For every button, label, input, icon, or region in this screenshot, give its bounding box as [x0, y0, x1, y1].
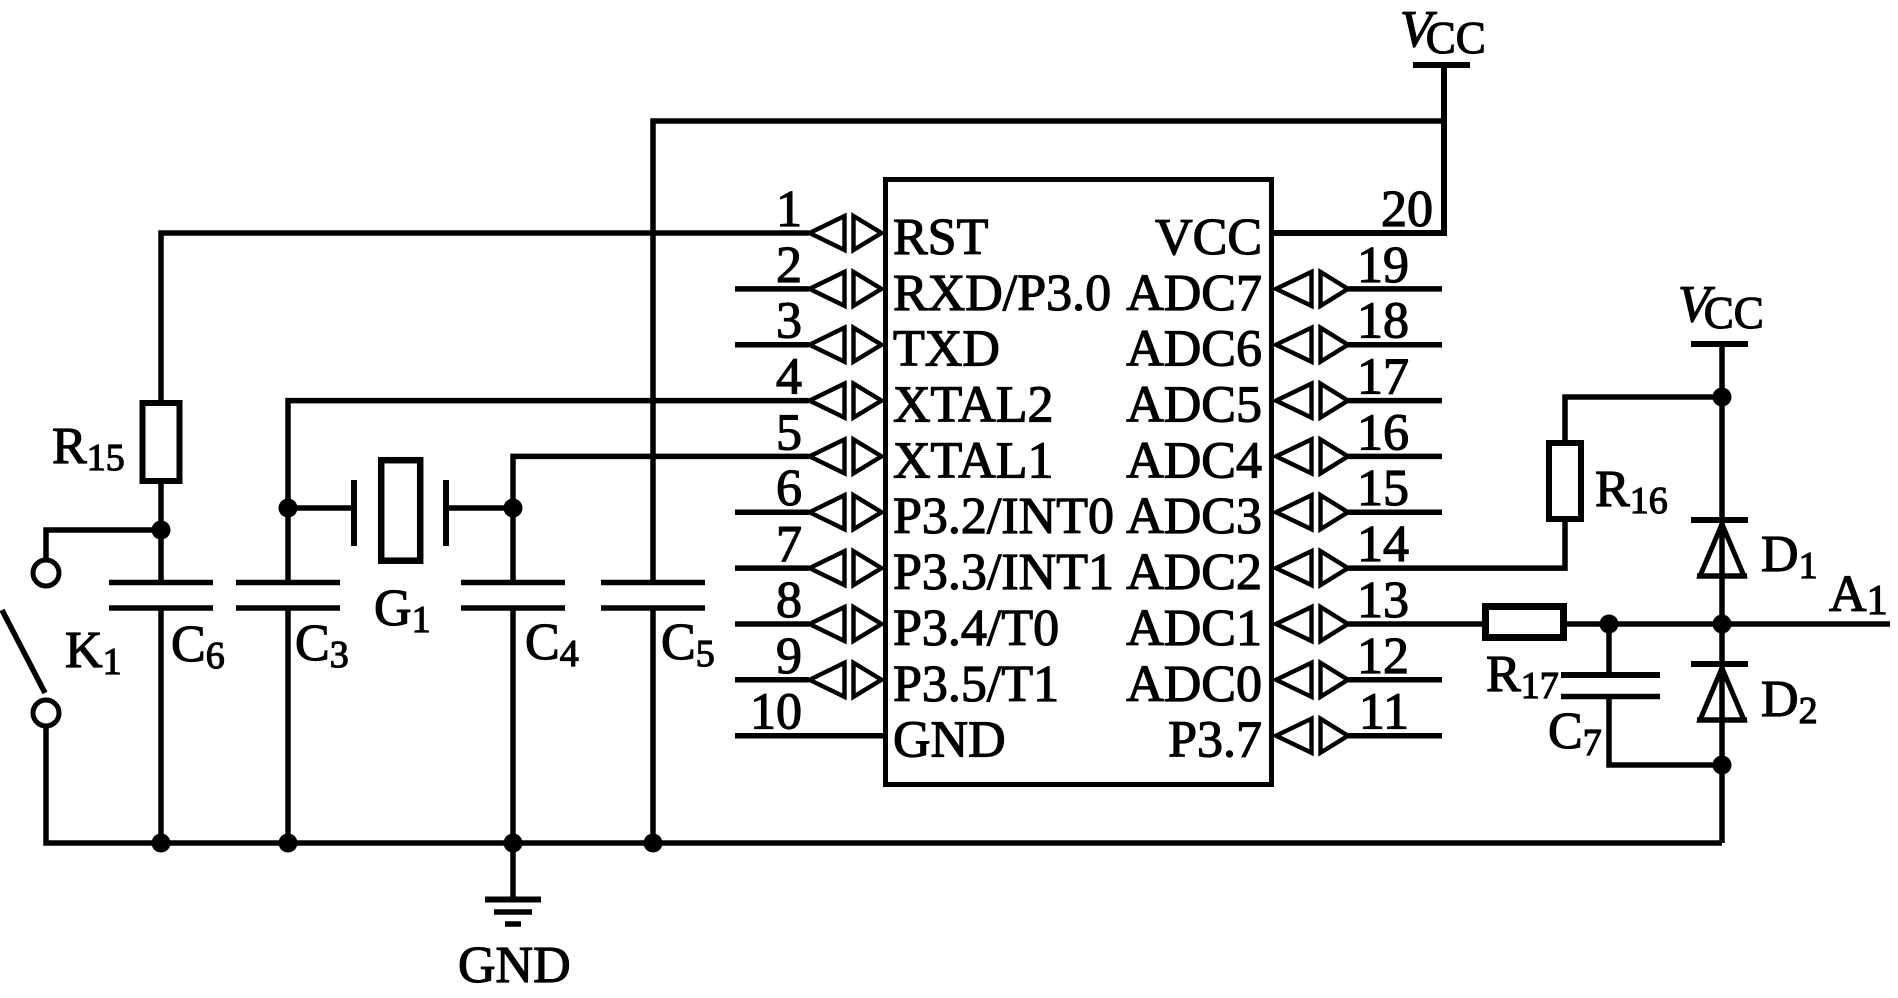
- capacitor C3 bottom lead: [285, 611, 291, 844]
- pin 4 bidirectional arrow: [810, 384, 882, 418]
- svg-text:11: 11: [1359, 684, 1409, 741]
- node C7 bottom / D2 leg: [1713, 756, 1732, 775]
- svg-text:17: 17: [1357, 349, 1409, 406]
- svg-text:RST: RST: [893, 209, 988, 266]
- svg-text:20: 20: [1381, 181, 1433, 238]
- wire crystal left lead: [288, 505, 351, 511]
- power VCC top symbol: [1413, 62, 1470, 68]
- svg-text:1: 1: [776, 181, 802, 238]
- node C6/bus: [152, 834, 171, 853]
- wire pin 12 stub: [1348, 677, 1442, 683]
- wire pin14 ADC2 net to R16: [1348, 522, 1565, 568]
- wire pin1 RST net from R15 top: [161, 233, 809, 401]
- capacitor C3: [236, 580, 340, 586]
- crystal G1 right electrode: [443, 480, 449, 546]
- svg-text:GND: GND: [893, 712, 1006, 769]
- svg-text:P3.3/INT1: P3.3/INT1: [893, 544, 1114, 601]
- svg-text:8: 8: [776, 572, 802, 629]
- capacitor C4: [461, 580, 565, 586]
- pin 1 bidirectional arrow: [810, 216, 882, 250]
- capacitor C4 bottom lead: [510, 611, 516, 844]
- wire K1 bottom + ground bus: [46, 728, 1722, 843]
- node C4/bus/GND: [504, 834, 523, 853]
- wire crystal right lead: [449, 505, 513, 511]
- wire R16 top to VCC rail: [1565, 397, 1722, 440]
- svg-text:10: 10: [750, 684, 802, 741]
- pin 15 bidirectional arrow: [1276, 495, 1348, 529]
- svg-text:16: 16: [1357, 404, 1409, 461]
- wire pin 10 GND stub: [735, 733, 883, 739]
- svg-text:XTAL1: XTAL1: [893, 432, 1053, 489]
- switch K1 bottom contact: [33, 700, 59, 726]
- node C7 top: [1600, 615, 1619, 634]
- wire pin4 XTAL2 net down to C3: [288, 401, 809, 580]
- svg-text:ADC3: ADC3: [1126, 488, 1262, 545]
- svg-text:GND: GND: [458, 937, 571, 994]
- pin 6 bidirectional arrow: [810, 495, 882, 529]
- pin 8 bidirectional arrow: [810, 607, 882, 641]
- diode D1: [1691, 520, 1748, 576]
- pin 16 bidirectional arrow: [1276, 439, 1348, 473]
- node D1/D2 on A1 line: [1713, 615, 1732, 634]
- pin 7 bidirectional arrow: [810, 551, 882, 585]
- wire pin20 VCC net: [1274, 65, 1444, 233]
- svg-text:15: 15: [1357, 460, 1409, 517]
- svg-text:P3.4/T0: P3.4/T0: [893, 600, 1059, 657]
- svg-text:ADC2: ADC2: [1126, 544, 1262, 601]
- svg-text:6: 6: [776, 460, 802, 517]
- pin 5 bidirectional arrow: [810, 439, 882, 473]
- ground stem: [510, 843, 516, 898]
- resistor R17: [1486, 607, 1564, 638]
- power VCC right symbol: [1691, 341, 1748, 347]
- svg-text:ADC5: ADC5: [1126, 377, 1262, 434]
- capacitor C7 top lead: [1606, 624, 1612, 672]
- capacitor C6 bottom lead: [158, 611, 164, 844]
- IC U1 20-pin microcontroller body: [886, 180, 1272, 785]
- resistor R15: [143, 403, 180, 481]
- svg-text:P3.5/T1: P3.5/T1: [893, 656, 1059, 713]
- capacitor C6: [109, 580, 213, 586]
- wire pin 19 stub: [1348, 286, 1442, 292]
- pin 12 bidirectional arrow: [1276, 663, 1348, 697]
- pin 14 bidirectional arrow: [1276, 551, 1348, 585]
- svg-text:ADC0: ADC0: [1126, 656, 1262, 713]
- pin 18 bidirectional arrow: [1276, 328, 1348, 362]
- svg-text:12: 12: [1357, 628, 1409, 685]
- wire pin5 XTAL1 net down to C4: [513, 456, 809, 580]
- wire C5 top lead / VCC rail to pin20 drop: [653, 121, 1444, 580]
- svg-text:5: 5: [776, 404, 802, 461]
- ground symbol: [485, 897, 541, 903]
- wire pin 9 stub: [735, 677, 809, 683]
- pin 2 bidirectional arrow: [810, 272, 882, 306]
- wire pin 8 stub: [735, 621, 809, 627]
- node R16/VCC rail: [1713, 388, 1732, 407]
- capacitor C5: [601, 580, 705, 586]
- node C3/bus: [279, 834, 298, 853]
- diode D2: [1691, 664, 1748, 720]
- wire pin 3 stub: [735, 342, 809, 348]
- resistor R16: [1549, 443, 1581, 519]
- capacitor C5 bottom lead: [650, 611, 656, 844]
- svg-text:P3.7: P3.7: [1168, 712, 1262, 769]
- svg-text:13: 13: [1357, 572, 1409, 629]
- node R15/K1/C6 junction: [152, 521, 171, 540]
- wire pin 11 stub: [1348, 733, 1442, 739]
- wire pin 16 stub: [1348, 454, 1442, 460]
- svg-text:VCC: VCC: [1155, 209, 1262, 266]
- pin 19 bidirectional arrow: [1276, 272, 1348, 306]
- svg-text:ADC4: ADC4: [1126, 432, 1262, 489]
- svg-text:ADC7: ADC7: [1126, 265, 1262, 322]
- svg-text:4: 4: [776, 349, 802, 406]
- node C3/crystal junction: [279, 499, 298, 518]
- pin 9 bidirectional arrow: [810, 663, 882, 697]
- svg-text:ADC6: ADC6: [1126, 321, 1262, 378]
- pin 11 bidirectional arrow: [1276, 719, 1348, 753]
- pin 3 bidirectional arrow: [810, 328, 882, 362]
- wire VCC right down through D1/D2 to bus: [1719, 344, 1725, 843]
- svg-text:P3.2/INT0: P3.2/INT0: [893, 488, 1114, 545]
- pin 17 bidirectional arrow: [1276, 384, 1348, 418]
- svg-text:19: 19: [1357, 237, 1409, 294]
- capacitor C7: [1561, 672, 1660, 678]
- wire pin 17 stub: [1348, 398, 1442, 404]
- switch K1 top contact: [33, 560, 59, 586]
- svg-text:7: 7: [776, 516, 802, 573]
- crystal G1 left electrode: [351, 480, 357, 546]
- svg-text:3: 3: [776, 293, 802, 350]
- wire pin 18 stub: [1348, 342, 1442, 348]
- wire pin 6 stub: [735, 509, 809, 515]
- wire node to switch top contact: [46, 530, 161, 558]
- svg-text:2: 2: [776, 237, 802, 294]
- wire R15 bottom to node: [158, 482, 164, 530]
- pin 13 bidirectional arrow: [1276, 607, 1348, 641]
- svg-text:TXD: TXD: [893, 321, 1000, 378]
- wire pin13 ADC1 stub to R17: [1348, 621, 1482, 627]
- svg-text:RXD/P3.0: RXD/P3.0: [893, 265, 1111, 322]
- crystal G1 body: [381, 460, 420, 561]
- capacitor C7 bottom lead: [1609, 699, 1722, 765]
- svg-text:ADC1: ADC1: [1126, 600, 1262, 657]
- svg-text:14: 14: [1357, 516, 1409, 573]
- node C4/crystal junction: [504, 499, 523, 518]
- wire pin 7 stub: [735, 565, 809, 571]
- wire A1 line: [1567, 621, 1890, 627]
- svg-text:XTAL2: XTAL2: [893, 377, 1053, 434]
- capacitor C6 top lead: [158, 530, 164, 580]
- wire pin 2 stub: [735, 286, 809, 292]
- wire pin 15 stub: [1348, 509, 1442, 515]
- svg-text:9: 9: [776, 628, 802, 685]
- svg-text:18: 18: [1357, 293, 1409, 350]
- node C5/bus: [644, 834, 663, 853]
- switch K1 blade: [2, 610, 45, 693]
